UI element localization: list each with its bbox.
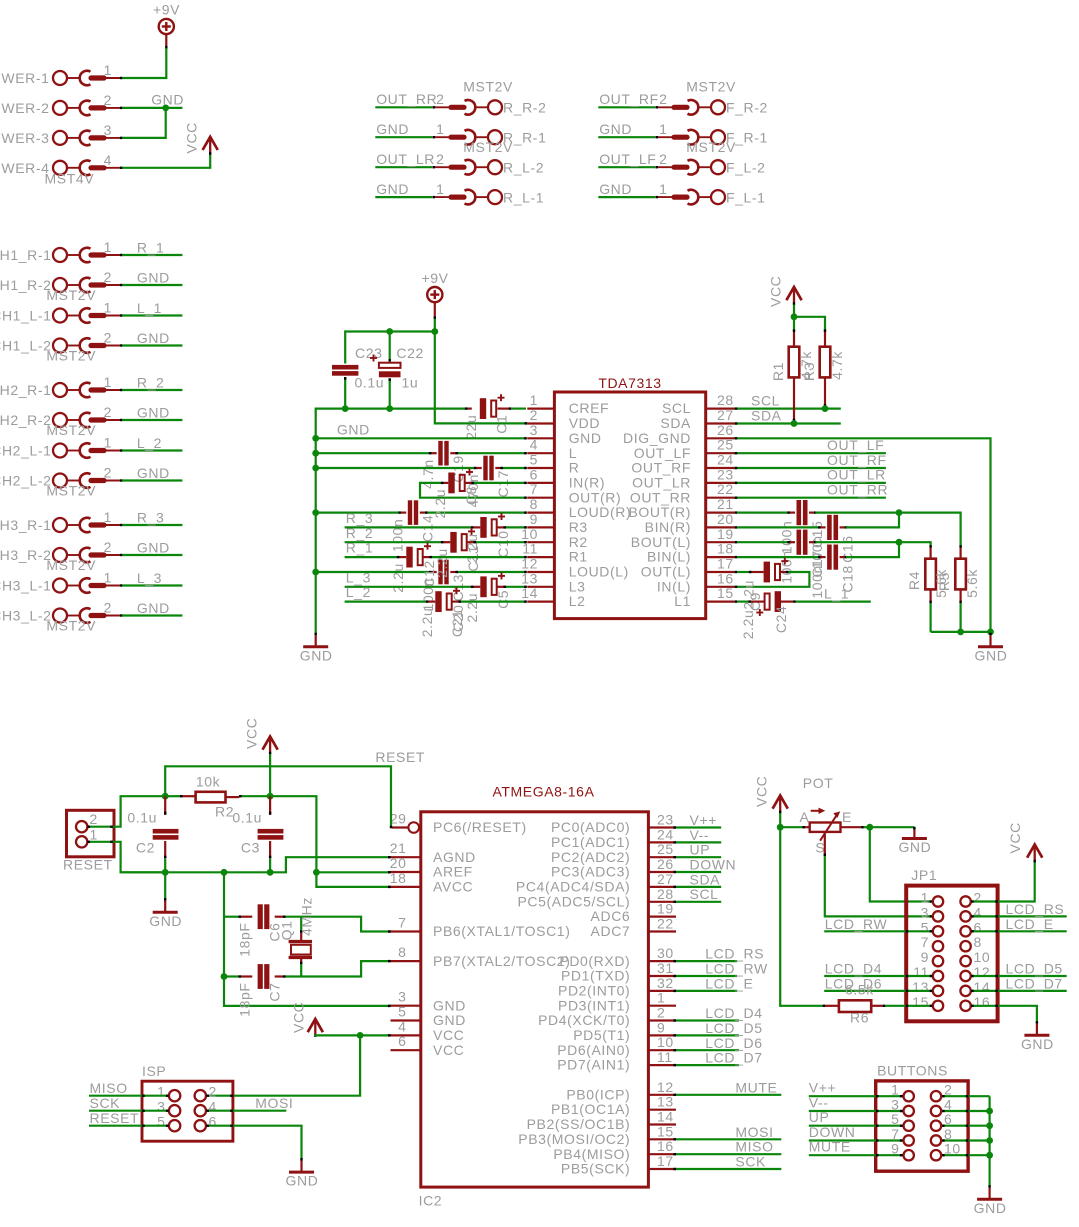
wire OUT_RF (598, 106, 655, 108)
svg-text:LCD_D6: LCD_D6 (705, 1035, 762, 1051)
capacitor C16 (100n) (827, 515, 838, 540)
svg-text:MST2V: MST2V (463, 139, 513, 155)
connector CH2_R-1 pad (53, 383, 123, 398)
wire LCD_D4 (674, 1019, 739, 1021)
wire V++ (BUTTONS) (809, 1095, 903, 1097)
wire to cap (345, 556, 407, 558)
svg-text:29: 29 (390, 811, 407, 827)
connector pad R_L-2 (432, 160, 502, 175)
svg-text:R_L-1: R_L-1 (503, 189, 544, 205)
svg-text:VCC: VCC (244, 718, 260, 749)
svg-text:OUT_RF: OUT_RF (827, 452, 887, 468)
wire RESET net vertical (165, 766, 391, 826)
wire BUTTONS pin2 to GND bus (942, 1095, 990, 1097)
wire VCC to R3 branch (794, 317, 825, 332)
pin 22 stub (ATMEGA right) (648, 930, 676, 932)
power symbol +9V (top left) (153, 2, 180, 35)
wire C18 up to node (846, 542, 899, 557)
capacitor C5 (2.2u) (480, 572, 505, 597)
svg-text:BIN(R): BIN(R) (645, 519, 691, 535)
svg-text:PB1(OC1A): PB1(OC1A) (551, 1101, 630, 1117)
ground symbol (ISP) (300, 1158, 302, 1161)
connector CH3_R-2 pad (53, 548, 123, 563)
junction BUTTONS GND (986, 1122, 993, 1129)
wire VCC via R6 to JP1 pin15 (780, 827, 839, 1006)
svg-text:2: 2 (104, 92, 112, 108)
svg-text:10: 10 (974, 949, 991, 965)
svg-text:21: 21 (717, 496, 734, 512)
svg-text:Q1: Q1 (279, 921, 295, 941)
wire OUT_LR (375, 166, 432, 168)
svg-text:5: 5 (530, 452, 538, 468)
connector RESET body (67, 810, 115, 857)
svg-text:CH2_R-1: CH2_R-1 (0, 382, 52, 398)
wire to cap (345, 586, 481, 588)
wire cap out (809, 541, 817, 543)
wire BUTTONS pin8 to GND bus (942, 1139, 990, 1141)
power symbol VCC (reset) (263, 737, 278, 755)
pin 27 stub of TDA7313 (706, 422, 735, 424)
svg-text:R2: R2 (215, 804, 234, 820)
svg-text:GND: GND (137, 465, 170, 481)
wire VCC to R1/R3 (793, 305, 795, 332)
svg-text:20: 20 (717, 511, 734, 527)
svg-text:19: 19 (657, 901, 674, 917)
svg-text:1: 1 (659, 181, 667, 197)
power symbol VCC (above R1 R3) (786, 287, 801, 305)
svg-text:100n: 100n (809, 565, 825, 599)
svg-text:22: 22 (717, 481, 734, 497)
pin 16 stub (ATMEGA right) (648, 1153, 676, 1155)
svg-text:R1: R1 (770, 362, 786, 381)
svg-text:C8: C8 (463, 486, 479, 505)
wire GND (375, 196, 432, 198)
junction R5 GND (957, 629, 964, 636)
svg-text:L_1: L_1 (137, 300, 162, 316)
svg-text:GND: GND (599, 181, 632, 197)
svg-text:16: 16 (657, 1138, 674, 1154)
wire GND from CH3_L-2 (122, 614, 182, 616)
pin 14 circle (JP1) (960, 986, 970, 996)
svg-text:CH3_L-1: CH3_L-1 (0, 578, 52, 594)
svg-text:C1: C1 (494, 415, 510, 434)
resistor R1 body (789, 329, 800, 421)
wire C24 to L_1 (781, 600, 871, 602)
svg-text:VCC: VCC (433, 1042, 464, 1058)
svg-text:1: 1 (436, 121, 444, 137)
svg-text:SCL: SCL (751, 392, 780, 408)
svg-text:MISO: MISO (735, 1139, 773, 1155)
wire MISO (674, 1153, 782, 1155)
junction bus pin8 row (312, 509, 319, 516)
svg-text:6: 6 (209, 1114, 217, 1130)
junction GND pin26 drop (987, 629, 994, 636)
connector pad F_R-2 (655, 100, 725, 115)
wire LCD_RS from JP1 pin4 (971, 915, 1067, 917)
svg-text:9: 9 (530, 511, 538, 527)
svg-text:27: 27 (717, 407, 734, 423)
wire C23 bottom to GND rail (344, 377, 346, 409)
wire GND branch down to C6/C7 (224, 872, 391, 1006)
pin 24 stub (ATMEGA right) (648, 841, 676, 843)
pin 17 stub (ATMEGA right) (648, 1168, 676, 1170)
svg-text:VDD: VDD (569, 415, 600, 431)
pin 6 circle (ISP) (195, 1120, 206, 1131)
svg-text:CH2_L-1: CH2_L-1 (0, 443, 52, 459)
wire BUTTONS pin10 to GND bus (942, 1154, 990, 1156)
pin 23 stub of TDA7313 (706, 482, 735, 484)
svg-text:GND: GND (137, 540, 170, 556)
svg-text:CH1_R-2: CH1_R-2 (0, 277, 52, 293)
capacitor C11 (2.2u) (450, 528, 475, 553)
svg-text:LCD_D4: LCD_D4 (825, 961, 882, 977)
svg-text:IN(R): IN(R) (569, 475, 605, 491)
svg-text:25: 25 (657, 841, 674, 857)
pin 13 stub of TDA7313 (527, 586, 554, 588)
pin 8 circle (BUTTONS) (931, 1135, 941, 1145)
svg-text:C10: C10 (495, 530, 511, 557)
junction crystal GND branch (221, 869, 228, 876)
svg-text:F_R-2: F_R-2 (726, 100, 768, 116)
pin 9 circle (JP1) (933, 956, 943, 966)
pin 31 stub (ATMEGA right) (648, 975, 676, 977)
pin 18 stub (ATMEGA left) (391, 886, 421, 888)
junction C2 GND (162, 869, 169, 876)
pin 2 stub (ATMEGA right) (648, 1019, 676, 1021)
connector CH2_L-2 pad (53, 473, 123, 488)
svg-text:SCK: SCK (90, 1095, 121, 1111)
wire to cap (345, 541, 451, 543)
connector POWER-1 pad (53, 71, 123, 86)
svg-text:IN(L): IN(L) (657, 578, 691, 594)
inversion bubble pin29 (408, 822, 419, 833)
crystal Q1 (4MHz) (289, 917, 312, 977)
svg-text:7: 7 (921, 934, 929, 950)
pin 7 stub (ATMEGA left) (391, 930, 421, 932)
svg-text:CH1_L-1: CH1_L-1 (0, 308, 52, 324)
wire LCD_D6 (674, 1049, 739, 1051)
wire DOWN (BUTTONS) (809, 1139, 903, 1141)
svg-text:DIG_GND: DIG_GND (623, 430, 691, 446)
svg-text:OUT_LF: OUT_LF (634, 445, 691, 461)
wire cap to pin (420, 511, 527, 513)
svg-text:MST2V: MST2V (686, 139, 736, 155)
svg-text:VCC: VCC (433, 1027, 464, 1043)
svg-text:ADC7: ADC7 (591, 923, 631, 939)
svg-text:18pF: 18pF (237, 923, 253, 957)
wire CREF cap left (465, 407, 468, 409)
svg-text:OUT_RR: OUT_RR (827, 482, 888, 498)
wire VCC to pin4 (315, 1035, 390, 1036)
svg-text:V--: V-- (809, 1095, 829, 1111)
svg-text:L_2: L_2 (137, 435, 162, 451)
wire to cap (316, 511, 407, 513)
capacitor C7 (18pF) (258, 964, 270, 989)
wire BUTTONS pin4 to GND bus (942, 1110, 990, 1112)
svg-text:1: 1 (657, 990, 665, 1006)
pin 1 circle (ISP) (169, 1090, 180, 1101)
svg-text:AREF: AREF (433, 864, 473, 880)
svg-text:L_1: L_1 (824, 585, 849, 601)
svg-text:OUT_RR: OUT_RR (630, 489, 691, 505)
ground symbol (JP1) (1036, 1021, 1038, 1024)
svg-text:9: 9 (921, 949, 929, 965)
connector CH1_R-1 pad (53, 248, 123, 263)
svg-text:CH2_R-2: CH2_R-2 (0, 412, 52, 428)
svg-text:CH3_R-2: CH3_R-2 (0, 547, 52, 563)
svg-text:2: 2 (104, 330, 112, 346)
wire DOWN (674, 871, 722, 873)
pin 11 circle (JP1) (933, 971, 943, 981)
svg-text:1: 1 (104, 239, 112, 255)
svg-text:100n: 100n (390, 519, 406, 553)
pin 22 stub of TDA7313 (706, 497, 735, 499)
svg-text:1: 1 (104, 300, 112, 316)
svg-text:PB4(MISO): PB4(MISO) (553, 1146, 630, 1162)
pin 4 circle (ISP) (195, 1105, 206, 1116)
capacitor C6 (18pF) (258, 904, 270, 929)
wire LCD_D5 from JP1 pin12 (971, 975, 1067, 977)
wire GND from CH3_R-2 (122, 554, 182, 556)
svg-text:24: 24 (657, 826, 674, 842)
wire LCD_RW to JP1 pin5 (824, 930, 932, 932)
junction C22 bottom (386, 405, 393, 412)
svg-text:CH1_L-2: CH1_L-2 (0, 338, 52, 354)
svg-text:PD2(INT0): PD2(INT0) (558, 983, 630, 999)
svg-text:L3: L3 (569, 578, 586, 594)
wire OUT(R) pin7 loop (420, 483, 527, 498)
svg-text:VCC: VCC (1007, 822, 1023, 853)
svg-text:3: 3 (104, 122, 112, 138)
svg-text:R3: R3 (569, 519, 588, 535)
svg-text:POWER-2: POWER-2 (0, 100, 50, 116)
capacitor C19 (4.7n) (438, 441, 448, 466)
svg-text:F_L-2: F_L-2 (726, 159, 766, 175)
svg-text:5.6k: 5.6k (964, 569, 980, 598)
pin 25 stub (ATMEGA right) (648, 856, 676, 858)
svg-text:R1: R1 (569, 549, 588, 565)
pin 21 stub of TDA7313 (706, 511, 735, 513)
svg-text:15: 15 (657, 1123, 674, 1139)
svg-text:LCD_RW: LCD_RW (705, 961, 768, 977)
connector CH1_L-1 pad (53, 308, 123, 323)
pin 1 circle (JP1) (933, 896, 943, 906)
svg-text:+9V: +9V (421, 270, 448, 286)
svg-text:PC0(ADC0): PC0(ADC0) (551, 819, 630, 835)
svg-text:A: A (800, 809, 810, 825)
connector pad R_L-1 (432, 190, 502, 205)
svg-text:LOUD(L): LOUD(L) (569, 564, 629, 580)
wire GND rail under R4 R5 (931, 631, 991, 633)
pin 27 stub (ATMEGA right) (648, 886, 676, 888)
svg-text:PC5(ADC5/SCL): PC5(ADC5/SCL) (517, 893, 630, 909)
potentiometer POT body (810, 808, 841, 841)
pin 10 circle (JP1) (960, 956, 970, 966)
wire +9V to POWER-1 (122, 48, 166, 78)
wire R_3 from CH3_R-1 (122, 524, 182, 526)
wire SCL (674, 901, 722, 903)
svg-text:7: 7 (530, 481, 538, 497)
wire pin to cap (735, 511, 795, 513)
svg-text:LCD_D4: LCD_D4 (705, 1005, 762, 1021)
svg-text:1: 1 (659, 121, 667, 137)
wire C7 row (224, 975, 252, 977)
svg-text:2: 2 (104, 465, 112, 481)
svg-text:F_L-1: F_L-1 (726, 189, 766, 205)
pin 4 stub of TDA7313 (527, 452, 554, 454)
wire C8 to pin6 (465, 482, 527, 484)
wire cap to pin (497, 526, 527, 528)
svg-text:2.2u: 2.2u (432, 489, 448, 519)
svg-text:4.7n: 4.7n (420, 459, 436, 489)
svg-text:31: 31 (657, 960, 674, 976)
svg-text:L2: L2 (569, 593, 586, 609)
wire cap to pin (450, 571, 527, 573)
svg-text:GND: GND (433, 1012, 466, 1028)
svg-text:R_3: R_3 (346, 510, 373, 526)
svg-text:22: 22 (657, 916, 674, 932)
wire LCD_D6 to JP1 pin13 (824, 990, 932, 992)
pin 13 circle (JP1) (933, 986, 943, 996)
svg-text:PD1(TXD): PD1(TXD) (561, 968, 630, 984)
capacitor C2 (0.1u) (153, 796, 179, 872)
svg-text:13: 13 (657, 1094, 674, 1110)
wire LCD_D5 (674, 1034, 739, 1036)
svg-text:POWER-1: POWER-1 (0, 70, 50, 86)
svg-text:1: 1 (436, 181, 444, 197)
svg-text:3: 3 (921, 904, 929, 920)
svg-text:R4: R4 (906, 571, 922, 590)
pin 9 stub (ATMEGA right) (648, 1034, 676, 1036)
pin 14 stub (ATMEGA right) (648, 1123, 676, 1125)
svg-text:LCD_RW: LCD_RW (825, 916, 888, 932)
svg-text:17: 17 (717, 556, 734, 572)
capacitor C20 (2.2u) (435, 587, 460, 612)
wire ISP pin6 to GND (206, 1126, 301, 1159)
svg-text:L_3: L_3 (346, 569, 371, 585)
junction on POWER-2 GND (162, 105, 169, 112)
svg-text:GND: GND (1021, 1036, 1054, 1052)
svg-text:12: 12 (974, 964, 991, 980)
pin 16 circle (JP1) (960, 1001, 970, 1011)
svg-text:MUTE: MUTE (809, 1139, 851, 1155)
svg-text:0.1u: 0.1u (232, 810, 262, 826)
svg-text:R_R-2: R_R-2 (503, 100, 546, 116)
+9V cross (162, 22, 171, 31)
svg-text:GND: GND (286, 1173, 319, 1189)
junction ISP supply (357, 1032, 364, 1039)
wire to cap (316, 452, 437, 454)
svg-text:R_3: R_3 (137, 510, 164, 526)
pin 6 stub (ATMEGA left) (391, 1049, 421, 1051)
wire cap out (840, 526, 848, 528)
wire GND rail (reset area) (121, 857, 391, 872)
junction BUTTONS GND (986, 1137, 993, 1144)
svg-text:PB0(ICP): PB0(ICP) (566, 1086, 630, 1102)
svg-text:MST2V: MST2V (46, 287, 96, 303)
svg-text:R3: R3 (801, 362, 817, 381)
svg-text:PB6(XTAL1/TOSC1): PB6(XTAL1/TOSC1) (433, 923, 570, 939)
pin 26 stub of TDA7313 (706, 437, 735, 439)
svg-text:26: 26 (657, 856, 674, 872)
svg-text:MST2V: MST2V (463, 78, 513, 94)
svg-text:VCC: VCC (291, 1002, 307, 1033)
wire UP (674, 856, 722, 858)
wire C6 to XTAL1 (275, 917, 391, 932)
svg-text:28: 28 (717, 392, 734, 408)
connector CH1_L-2 pad (53, 338, 123, 353)
wire GND from CH2_R-2 (122, 419, 182, 421)
svg-text:VCC: VCC (754, 776, 770, 807)
svg-text:1: 1 (921, 890, 929, 906)
pin 1 circle (BUTTONS) (904, 1091, 914, 1101)
wire C1 to pin1 (498, 408, 527, 410)
pin 5 stub of TDA7313 (527, 467, 554, 469)
wire V-- (674, 841, 722, 843)
svg-text:PB3(MOSI/OC2): PB3(MOSI/OC2) (518, 1131, 630, 1147)
svg-text:C16: C16 (840, 535, 856, 562)
wire MISO (ISP) (89, 1095, 169, 1097)
wire GND bus (left of TDA7313) (316, 409, 465, 633)
svg-text:LCD_RS: LCD_RS (1006, 901, 1065, 917)
+9V stub (165, 34, 167, 48)
pin 9 circle (BUTTONS) (904, 1150, 914, 1160)
pin 4 circle (BUTTONS) (931, 1106, 941, 1116)
pin 8 stub (ATMEGA left) (391, 960, 421, 962)
wire pin15 to C24 (735, 600, 765, 602)
junction bus pin5 row (312, 465, 319, 472)
svg-text:16: 16 (717, 570, 734, 586)
svg-text:2: 2 (436, 151, 444, 167)
capacitor C14 (100n) (408, 500, 418, 525)
wire to cap (345, 600, 436, 602)
junction bus pin4 row (312, 450, 319, 457)
wire to cap (345, 526, 481, 528)
wire VCC to POT node (779, 813, 781, 827)
svg-text:PD7(AIN1): PD7(AIN1) (557, 1057, 630, 1073)
svg-text:R_L-2: R_L-2 (503, 159, 544, 175)
svg-text:PC4(ADC4/SDA): PC4(ADC4/SDA) (516, 879, 630, 895)
pin 3 stub of TDA7313 (527, 437, 554, 439)
svg-text:PB5(SCK): PB5(SCK) (561, 1161, 630, 1177)
pin 16 stub of TDA7313 (706, 586, 735, 588)
svg-text:GND: GND (599, 121, 632, 137)
connector JP1 body (906, 886, 997, 1022)
wire SCL from pin28 (735, 408, 841, 410)
svg-text:8: 8 (974, 934, 982, 950)
wire C15 to node (815, 513, 960, 548)
pin 19 stub of TDA7313 (706, 541, 735, 543)
wire V-- (BUTTONS) (809, 1110, 903, 1112)
wire cap to pin (423, 556, 527, 558)
svg-text:GND: GND (300, 647, 333, 663)
pin 4 circle (JP1) (960, 911, 970, 921)
wire L_1 from CH1_L-1 (122, 314, 182, 316)
svg-text:100n: 100n (779, 521, 795, 555)
svg-text:BOUT(L): BOUT(L) (631, 534, 691, 550)
resistor R4 body (925, 545, 936, 632)
svg-text:ADC6: ADC6 (591, 908, 631, 924)
junction POT-E node (866, 824, 873, 831)
power symbol VCC (JP1) (1027, 845, 1042, 863)
svg-text:2.2u: 2.2u (419, 608, 435, 638)
wire VCC down to node (269, 754, 271, 796)
svg-text:15: 15 (912, 994, 929, 1010)
wire cap to pin (452, 600, 527, 602)
svg-text:1u: 1u (402, 375, 419, 391)
wire E node to JP1 pin1 (870, 827, 933, 901)
svg-text:LCD_D7: LCD_D7 (705, 1050, 762, 1066)
